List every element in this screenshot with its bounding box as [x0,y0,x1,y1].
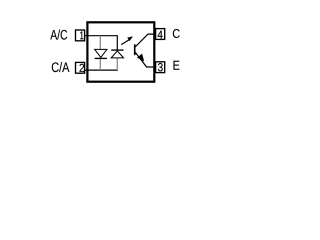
pin 3 [156,62,165,73]
light emission arrow [121,36,133,44]
phototransistor Q1 base bar [134,44,136,55]
node label E emitter (pin 3) [174,61,180,70]
wire: pin 1 stub and anode rail [84,36,117,50]
pin 1 [76,30,85,41]
node label C/A (pin 2) [52,62,70,72]
pin 4 [156,29,165,40]
wire: LED D1 anode stem [99,36,101,50]
LED D2 (up-pointing diode, anti-parallel) [111,50,123,58]
pin 2 [76,62,85,73]
phototransistor Q1 collector wire to pin 4 [135,34,155,47]
phototransistor Q1 emitter wire with arrow to pin 3 [135,52,155,67]
wire: LED D1 cathode stem [99,58,101,70]
LED D1 (down-pointing diode) [95,49,107,58]
node label C collector (pin 4) [173,29,180,38]
wire: pin 2 stub and cathode rail [84,58,118,70]
optocoupler body U1 [87,22,154,81]
node label A/C (pin 1) [50,30,67,40]
